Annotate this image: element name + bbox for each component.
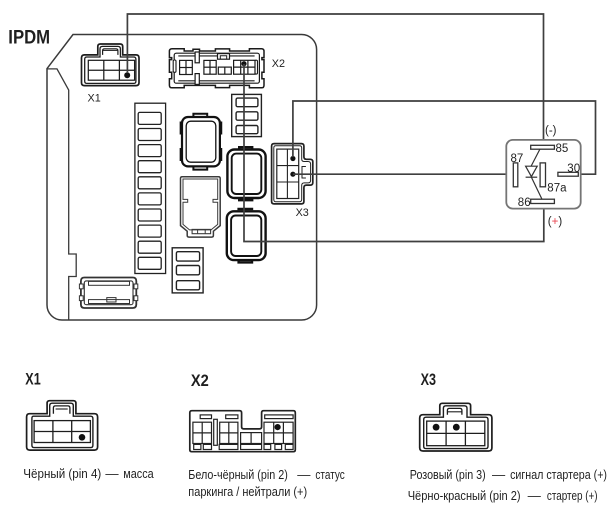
svg-text:X3: X3 <box>296 207 309 219</box>
svg-text:—: — <box>105 466 119 481</box>
svg-text:87: 87 <box>511 153 524 165</box>
connector X1 body <box>82 44 140 86</box>
fuse holder <box>181 177 221 237</box>
relay socket A <box>181 114 222 170</box>
bottom-left connector <box>79 278 137 309</box>
IPDM box outline <box>47 35 317 321</box>
svg-text:X1: X1 <box>25 370 40 388</box>
wire from X2 to relay pin 86 <box>244 64 544 242</box>
fuse block top <box>232 94 262 136</box>
svg-text:Чёрный (pin 4): Чёрный (pin 4) <box>23 466 101 481</box>
X2 left grid <box>180 60 193 74</box>
connector X3 <box>272 144 313 204</box>
relay coil wire with diode <box>526 149 542 199</box>
fuse strip <box>135 103 166 273</box>
svg-text:86: 86 <box>518 197 531 209</box>
svg-text:Розовый (pin 3): Розовый (pin 3) <box>410 467 486 482</box>
connector X2 body <box>169 49 264 88</box>
svg-text:X2: X2 <box>272 58 285 70</box>
svg-text:X1: X1 <box>88 92 101 104</box>
svg-text:X2: X2 <box>191 372 209 390</box>
X3 pin 3 dot <box>290 156 295 161</box>
X2 pin 2 dot <box>241 61 246 66</box>
svg-text:—: — <box>492 467 506 482</box>
relay pin 85 <box>531 145 555 149</box>
bottom X1 connector body <box>27 401 98 450</box>
X2 right grid <box>234 60 255 74</box>
X2 middle grid <box>204 60 216 74</box>
relay socket B <box>227 147 265 200</box>
svg-text:Чёрно-красный (pin 2): Чёрно-красный (pin 2) <box>408 488 521 503</box>
bottom X1 pin 4 dot <box>79 434 86 441</box>
svg-text:стартер (+): стартер (+) <box>547 488 598 503</box>
bottom X2 inner details <box>193 415 293 450</box>
wire from X3 pin 3 to relay pin 30 <box>293 101 596 174</box>
relay pin 86 <box>531 199 555 203</box>
svg-text:IPDM: IPDM <box>8 26 50 48</box>
svg-text:87a: 87a <box>547 183 567 195</box>
wire from X1 to relay pin 85 <box>127 14 543 145</box>
svg-text:масса: масса <box>123 466 154 481</box>
X1 pin 4 dot <box>124 72 130 78</box>
svg-text:сигнал стартера (+): сигнал стартера (+) <box>510 467 607 482</box>
svg-text:X3: X3 <box>421 371 436 389</box>
relay socket C <box>227 209 266 262</box>
svg-text:паркинга / нейтрали (+): паркинга / нейтрали (+) <box>188 484 307 499</box>
bottom X2 pin 2 dot <box>275 424 281 430</box>
svg-text:85: 85 <box>556 143 569 155</box>
fuse block bottom <box>172 248 203 293</box>
wire from X3 pin 2 to relay pin 87 <box>293 173 513 175</box>
svg-text:30: 30 <box>567 163 580 175</box>
X2 low grid <box>218 67 231 74</box>
IPDM box crease line <box>47 69 76 320</box>
relay K1 body <box>506 140 580 209</box>
svg-text:—: — <box>528 488 542 503</box>
svg-text:Бело-чёрный (pin 2): Бело-чёрный (pin 2) <box>188 467 287 482</box>
bottom X3 pin 2 dot <box>453 424 460 431</box>
bottom X3 connector body <box>420 403 492 451</box>
svg-text:(-): (-) <box>545 125 557 137</box>
relay pin 30 <box>558 172 578 176</box>
svg-text:—: — <box>297 467 311 482</box>
bottom X2 connector outline <box>190 411 295 452</box>
svg-text:статус: статус <box>315 467 345 482</box>
relay pin 87a <box>540 163 545 187</box>
X3 pin 2 dot <box>290 172 295 177</box>
svg-text:(+): (+) <box>548 216 563 228</box>
bottom X3 pin 3 dot <box>433 424 440 431</box>
relay pin 87 <box>513 163 518 187</box>
